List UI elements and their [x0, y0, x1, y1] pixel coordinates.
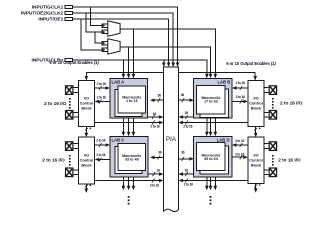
ellipsis dots left lower I/O pins [69, 155, 71, 166]
wire below lower-right I/O block [254, 184, 261, 193]
wire GCLRn row [72, 60, 206, 75]
svg-text:17 to 32: 17 to 32 [204, 99, 218, 103]
wire right I/O to PIA lower (2 to 16) [179, 178, 248, 182]
LAB C block [110, 136, 148, 177]
svg-text:LAB A: LAB A [112, 79, 125, 84]
svg-text:2 to 16: 2 to 16 [96, 138, 105, 142]
wire GCLK1 row [72, 7, 177, 63]
wire LAB A to PIA (16) [148, 115, 164, 119]
arrows into LAB B top [205, 74, 217, 79]
wire I/O to LAB B (2 to 16) [232, 86, 248, 90]
wire OE2 branch to mux2 input [95, 32, 102, 43]
I/O pin pairs left upper [65, 85, 79, 120]
svg-text:16: 16 [153, 112, 157, 116]
wire GCLK2 to mux1 input [86, 13, 102, 32]
svg-text:2 to 16: 2 to 16 [183, 124, 192, 128]
mux2 (OE mux) [108, 39, 120, 54]
svg-text:INPUT/GCLK1: INPUT/GCLK1 [32, 5, 64, 11]
wire left I/O to PIA lower (2 to 16) [95, 178, 164, 182]
I/O control block upper-left U1 [78, 81, 94, 127]
wire mux1 branch to LAB A [132, 29, 134, 75]
svg-text:2 to 16: 2 to 16 [97, 82, 106, 86]
svg-text:33 to 48: 33 to 48 [125, 157, 139, 161]
svg-text:2 to 16: 2 to 16 [150, 124, 159, 128]
svg-text:6 or 10 Output Enables (1): 6 or 10 Output Enables (1) [49, 60, 99, 65]
ellipsis dots right lower I/O pins [272, 155, 274, 166]
svg-text:Control: Control [249, 159, 263, 163]
wire LAB C to I/O (2 to 16) [95, 157, 110, 161]
svg-text:I/O: I/O [253, 96, 258, 100]
wire PIA to LAB C (36) [150, 155, 164, 159]
svg-text:16: 16 [185, 111, 189, 115]
svg-text:LAB C: LAB C [112, 137, 125, 142]
arrows into LAB A top [122, 74, 136, 79]
svg-text:2 to 16: 2 to 16 [236, 95, 245, 99]
wire mux2 branch to LAB A [128, 47, 130, 75]
wire PIA to LAB D (36) [179, 157, 195, 161]
svg-text:I/O: I/O [253, 154, 258, 158]
svg-text:2 to 16: 2 to 16 [96, 153, 105, 157]
svg-text:2 to 16 I/O: 2 to 16 I/O [42, 157, 65, 163]
svg-text:49 to 64: 49 to 64 [204, 157, 219, 161]
svg-text:Block: Block [251, 164, 262, 168]
svg-text:2 to 16: 2 to 16 [235, 139, 244, 143]
wires LAB B to LAB D globals [207, 118, 216, 132]
wire GCLRn branch to LAB A [122, 60, 124, 75]
svg-text:I/O: I/O [84, 96, 89, 100]
wire GCLK1 to mux1 input [91, 7, 102, 26]
svg-text:2 to 16 I/O: 2 to 16 I/O [280, 100, 303, 106]
input pin INPUT/OE1 [38, 17, 72, 23]
svg-text:1 to 16: 1 to 16 [126, 99, 138, 103]
ellipsis dots left upper I/O pins [69, 98, 71, 109]
mux2 input box 2 [102, 48, 109, 52]
wire right output enable line [179, 72, 256, 77]
wire mux1 output to LAB B [120, 29, 215, 75]
LAB A block [110, 78, 148, 118]
svg-text:16: 16 [157, 168, 161, 172]
arrow OE into right I/O block [253, 76, 257, 81]
arrow OE into left I/O block [85, 76, 89, 81]
svg-text:2 to 16 I/O: 2 to 16 I/O [44, 101, 67, 107]
svg-text:2 to 16 I/O: 2 to 16 I/O [278, 157, 301, 163]
wire LAB C to PIA (16) [148, 172, 164, 176]
svg-text:PIA: PIA [166, 136, 177, 143]
wire I/O to LAB A (2 to 16) [95, 86, 110, 90]
svg-text:6 or 10 Output Enables (1): 6 or 10 Output Enables (1) [226, 61, 276, 66]
wire PIA to LAB B (36) [179, 98, 195, 102]
svg-text:Block: Block [81, 164, 92, 168]
mux1 input box 2 [102, 30, 109, 34]
svg-text:2 to 16: 2 to 16 [235, 152, 244, 156]
wire left I/O to PIA (2 to 16) [95, 120, 164, 124]
svg-text:36: 36 [181, 93, 185, 97]
wire OE1 to mux2 input [81, 19, 102, 50]
svg-text:2 to 16: 2 to 16 [236, 81, 245, 85]
mux1 input box 1 [102, 24, 109, 28]
I/O pin pairs right upper [264, 85, 277, 120]
svg-text:LAB D: LAB D [217, 137, 230, 142]
svg-text:LAB B: LAB B [218, 79, 231, 84]
wire right I/O to PIA (2 to 16) [179, 120, 248, 124]
wire LAB D to PIA (16) [179, 172, 194, 176]
svg-text:Control: Control [249, 101, 263, 105]
I/O control block lower-left U2 [78, 137, 94, 184]
svg-text:2 to 16: 2 to 16 [184, 183, 193, 187]
wire I/O to LAB D (2 to 16) [232, 143, 248, 147]
wire OE2/GCLK2 row [72, 13, 173, 63]
svg-text:2 to 16: 2 to 16 [97, 96, 106, 100]
svg-text:Block: Block [251, 106, 262, 110]
wire OE upper-left I/O block to lower-left I/O block [85, 126, 92, 137]
LAB D block [193, 136, 232, 177]
svg-text:Control: Control [80, 159, 94, 163]
wires below LAB D with arrows and ellipsis [207, 177, 216, 186]
wire PIA to LAB A (36) [150, 98, 164, 102]
svg-text:16: 16 [185, 168, 189, 172]
wires LAB A to LAB C globals [123, 118, 133, 132]
svg-text:2 to 16: 2 to 16 [150, 183, 159, 187]
svg-text:Control: Control [80, 101, 94, 105]
wire LAB A to I/O (2 to 16) [95, 99, 110, 103]
mux1 (GCLK mux) [108, 21, 120, 36]
wire GCLRn branch to PIA [163, 60, 165, 63]
wire mux2 output to LAB B [120, 47, 210, 75]
input pin INPUT/GCLK1 [32, 5, 73, 11]
wire LAB B to PIA (16) [179, 115, 194, 119]
svg-text:36: 36 [158, 94, 162, 98]
wire below lower-left I/O block [85, 184, 92, 193]
svg-text:Block: Block [81, 106, 92, 110]
input pin INPUT/GCLRn [31, 58, 72, 64]
wire LAB B to I/O (2 to 16) [232, 99, 248, 103]
wire LAB D to I/O (2 to 16) [232, 155, 248, 159]
I/O pin pairs left lower [65, 141, 79, 177]
wire left output enable line [86, 72, 164, 77]
input pin INPUT/OE2/GCLK2 [21, 11, 72, 17]
mux2 input box 1 [102, 41, 109, 45]
wire I/O to LAB C (2 to 16) [95, 143, 110, 147]
ellipsis dots right upper I/O pins [272, 98, 274, 109]
LAB B block [193, 78, 232, 118]
wire OE upper-right I/O block to lower-right I/O block [254, 126, 261, 137]
svg-text:36: 36 [158, 151, 162, 155]
svg-text:36: 36 [181, 151, 185, 155]
arrows into PIA top [162, 63, 179, 68]
svg-text:INPUT/OE2/GCLK2: INPUT/OE2/GCLK2 [21, 11, 64, 17]
svg-text:INPUT/OE1: INPUT/OE1 [38, 17, 63, 23]
PIA bar [164, 67, 179, 212]
I/O pin pairs right lower [264, 141, 277, 177]
I/O control block lower-right U4 [248, 137, 264, 183]
wire OE1 row [72, 19, 168, 63]
wires below LAB C with arrows and ellipsis [123, 177, 133, 186]
svg-text:I/O: I/O [84, 154, 89, 158]
I/O control block upper-right U3 [248, 81, 264, 127]
